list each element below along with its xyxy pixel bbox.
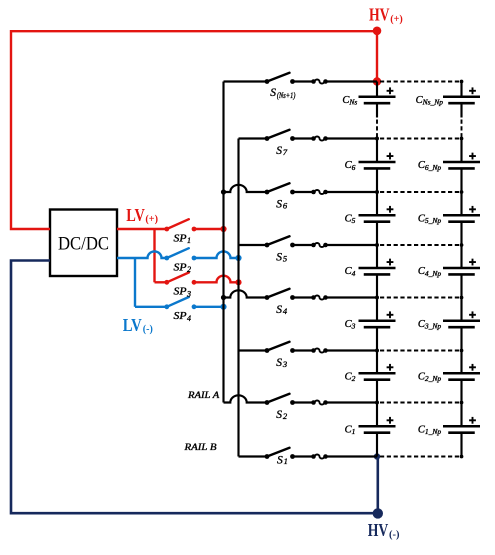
svg-text:S: S	[276, 304, 282, 316]
svg-text:4_Np: 4_Np	[425, 269, 442, 278]
svg-text:SP: SP	[174, 287, 188, 298]
svg-text:SP: SP	[174, 262, 188, 273]
svg-text:LV: LV	[123, 315, 142, 335]
svg-text:S: S	[276, 145, 282, 157]
svg-text:2_Np: 2_Np	[425, 374, 442, 383]
svg-text:2: 2	[352, 374, 356, 383]
svg-text:6_Np: 6_Np	[425, 163, 442, 172]
svg-text:3: 3	[186, 290, 191, 299]
svg-text:(-): (-)	[143, 324, 153, 335]
svg-text:3_Np: 3_Np	[424, 322, 442, 331]
svg-text:4: 4	[187, 314, 191, 323]
svg-text:SP: SP	[174, 233, 188, 244]
svg-text:SP: SP	[174, 311, 188, 322]
svg-text:3: 3	[282, 359, 287, 369]
svg-text:(+): (+)	[390, 14, 403, 25]
svg-text:5_Np: 5_Np	[425, 216, 442, 225]
svg-text:RAIL B: RAIL B	[183, 443, 216, 453]
svg-text:1_Np: 1_Np	[425, 427, 442, 436]
svg-text:S: S	[276, 357, 282, 369]
svg-text:HV: HV	[368, 520, 389, 540]
svg-text:HV: HV	[369, 5, 390, 25]
svg-text:6: 6	[283, 200, 288, 210]
svg-text:(-): (-)	[389, 530, 400, 541]
svg-text:2: 2	[187, 265, 191, 274]
svg-text:S: S	[276, 409, 282, 421]
svg-text:DC/DC: DC/DC	[58, 234, 109, 255]
svg-text:1: 1	[284, 456, 288, 466]
svg-text:Ns_Np: Ns_Np	[422, 98, 444, 107]
svg-text:4: 4	[352, 269, 356, 278]
svg-text:1: 1	[187, 236, 191, 245]
svg-text:S: S	[270, 87, 276, 99]
svg-text:S: S	[276, 252, 282, 264]
svg-text:S: S	[276, 199, 282, 211]
svg-text:5: 5	[283, 253, 287, 263]
svg-text:2: 2	[283, 411, 288, 421]
svg-text:6: 6	[352, 163, 356, 172]
svg-text:3: 3	[351, 322, 356, 331]
svg-text:1: 1	[352, 427, 356, 436]
svg-text:S: S	[277, 454, 283, 466]
svg-text:(+): (+)	[145, 214, 158, 225]
svg-text:4: 4	[283, 306, 288, 316]
svg-text:7: 7	[283, 147, 288, 157]
svg-text:5: 5	[352, 216, 356, 225]
svg-text:RAIL A: RAIL A	[187, 391, 220, 401]
svg-text:Ns: Ns	[348, 98, 357, 107]
svg-text:LV: LV	[126, 205, 145, 225]
svg-text:(Ns+1): (Ns+1)	[277, 91, 296, 100]
